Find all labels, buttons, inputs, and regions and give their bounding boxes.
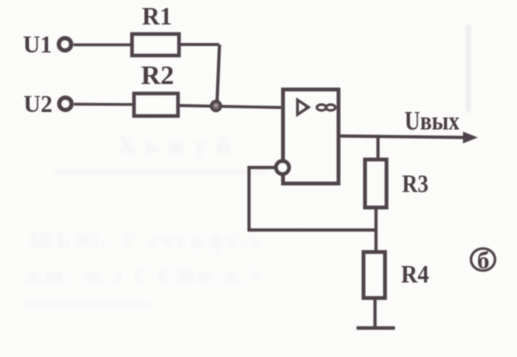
svg-text:R1: R1: [142, 4, 172, 31]
svg-text:б: б: [477, 249, 490, 275]
svg-text:U1: U1: [23, 33, 52, 59]
svg-text:R2: R2: [141, 61, 174, 90]
svg-text:жш. ш.з Г.ЕЖи.ж.э: жш. ш.з Г.ЕЖи.ж.э: [26, 263, 260, 287]
svg-text:R3: R3: [402, 171, 429, 198]
svg-text:U2: U2: [24, 92, 53, 118]
svg-text:R4: R4: [401, 262, 429, 289]
svg-text:Uвых: Uвых: [405, 107, 460, 136]
